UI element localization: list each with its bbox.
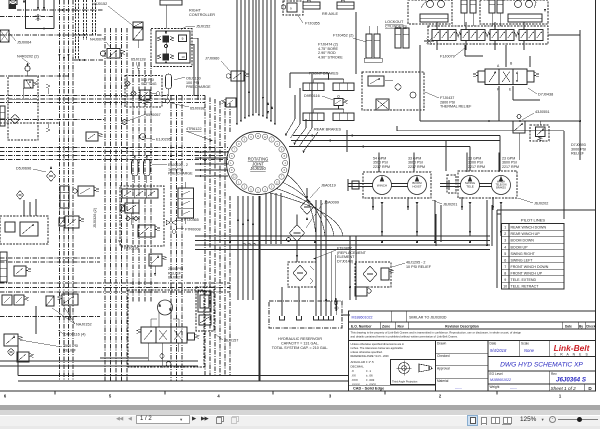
- pump group 2 enclosure (J6J0202): [458, 171, 517, 198]
- svg-text:M188601022: M188601022: [352, 316, 373, 320]
- pump shaft winch-boom: [392, 184, 408, 187]
- svg-text:± .1: ± .1: [366, 369, 371, 373]
- wire vertical pairs top band: [76, 0, 96, 60]
- wire verticals pump return (x 435-441): [435, 200, 441, 242]
- wire right section horizontal y210: [497, 209, 595, 211]
- controller valve lower: [157, 42, 187, 63]
- wire horizontal valve bank to D7J0438: [465, 45, 530, 67]
- drawing border right: [595, 0, 597, 391]
- main pressure line (thick, x 259.5): [259, 196, 261, 381]
- viewer: toolbar background: [0, 416, 600, 429]
- label E1J0295: [146, 138, 171, 142]
- label F7J0355: [297, 14, 320, 26]
- lockout cylinder pair B: [395, 28, 409, 48]
- confidentiality legal text: [349, 331, 596, 341]
- wire bus vertical group E (x 205-230): [205, 96, 230, 376]
- label O5J1130 100 PSI PRE-CHARGE: [174, 77, 211, 90]
- cylinder pair E top: [489, 0, 503, 26]
- pump arcs cluster top-right of bank: [508, 1, 546, 23]
- svg-text:inches. The tolerances below: inches. The tolerances below are applica…: [351, 346, 404, 350]
- svg-text:F7J0355: F7J0355: [305, 22, 320, 26]
- svg-text:Approval: Approval: [437, 367, 450, 371]
- viewer: zoom out button: [549, 416, 556, 423]
- svg-text:J6J0201: J6J0201: [443, 203, 457, 207]
- viewer: zoom dropdown caret: [542, 417, 548, 424]
- svg-text:Date: Date: [490, 341, 497, 345]
- label HYDRAULIC RESERVOIR CAPACITY: [272, 337, 329, 350]
- svg-text:D5J0696: D5J0696: [16, 167, 31, 171]
- label 500 PSI SETTING: [141, 78, 157, 86]
- wire group feeding rotating joint top (x 237-275): [236, 0, 276, 125]
- viewer: layout icon facing: [491, 417, 496, 424]
- valve bank inlet symbol: [424, 39, 434, 44]
- pilot lines feed wire: [436, 214, 502, 246]
- valve cluster J6J0157: [196, 287, 214, 331]
- zone numbers bottom: [4, 394, 562, 399]
- valve J7J0960: [226, 71, 249, 81]
- valve V1 top-left corner (bowtie + solenoid): [9, 0, 18, 9]
- swing control valve: [137, 327, 200, 343]
- front brake T-branch: [314, 73, 344, 80]
- top-right cluster enclosure B: [480, 0, 548, 24]
- svg-text:PRE-CHARGE: PRE-CHARGE: [186, 85, 211, 89]
- svg-text:.X: .X: [351, 369, 354, 373]
- svg-text:This drawing is the property o: This drawing is the property of Link-Bel…: [351, 331, 522, 335]
- svg-text:Rev: Rev: [551, 372, 557, 376]
- svg-text:4: 4: [504, 245, 506, 249]
- viewer: layout icon continuous: [481, 417, 487, 424]
- accumulator E5J0220 pair: [132, 155, 151, 183]
- wire bus horizontal right of joint y130-147: [289, 126, 564, 171]
- svg-text:FRONT BRAKES: FRONT BRAKES: [309, 72, 339, 76]
- label J7J0960: [205, 57, 230, 72]
- viewer: layout icon single-page (selected): [467, 415, 478, 426]
- label 3500 PSI RELIEF: [20, 340, 78, 352]
- drawing border bottom: [0, 390, 596, 392]
- svg-text:PRE-CHARGE: PRE-CHARGE: [168, 172, 193, 176]
- label 65J0938: [170, 103, 205, 111]
- viewer: page field dropdown caret: [180, 417, 186, 423]
- svg-text:J6A0119: J6A0119: [321, 184, 336, 188]
- solenoid valve mid-left B: [59, 216, 84, 228]
- viewer: zoom slider track: [558, 419, 598, 420]
- svg-text:J5J0326 (2): J5J0326 (2): [93, 207, 97, 228]
- viewer: snapshot icon 1: [217, 416, 224, 423]
- label NAJ0152: [52, 307, 92, 327]
- svg-text:Third Angle Projection: Third Angle Projection: [392, 380, 418, 384]
- svg-text:E1J0295: E1J0295: [156, 138, 171, 142]
- valve NAJ0152 b: [58, 294, 79, 305]
- svg-text:65J0128: 65J0128: [131, 58, 146, 62]
- hydraulic reservoir tank: [269, 287, 342, 328]
- svg-text:RELIEF: RELIEF: [63, 348, 77, 352]
- CAD - Solid Edge cell: [349, 385, 436, 391]
- label D9R0116: [304, 94, 333, 100]
- svg-text:Rev: Rev: [398, 324, 404, 328]
- valve below J7J0960: [222, 98, 237, 107]
- RR axle cylinder pair right: [337, 0, 354, 9]
- pump input shaft 2: [440, 180, 461, 190]
- label 46J1295 - 2 10 PSI RELIEF: [392, 261, 432, 269]
- left edge valve strip lower: [0, 252, 7, 282]
- wire bus horizontal y148-160 (main cross bus): [0, 148, 228, 160]
- label F7J0437 2800 PSI THERMAL RELIEF: [425, 92, 472, 109]
- svg-text:± .06: ± .06: [366, 374, 373, 378]
- svg-text:HYDRAULIC RESERVOIR: HYDRAULIC RESERVOIR: [278, 337, 322, 341]
- svg-text:F7R0008: F7R0008: [185, 228, 201, 232]
- svg-text:J5J0152: J5J0152: [196, 25, 210, 29]
- pump arcs cluster top-left of bank: [420, 1, 448, 23]
- svg-text:E.O. Number: E.O. Number: [351, 324, 372, 328]
- viewer: zoom slider thumb: [577, 417, 582, 422]
- svg-text:TOTAL SYSTEM CAP. = 210 GAL.: TOTAL SYSTEM CAP. = 210 GAL.: [272, 346, 329, 350]
- controller top box: [160, 0, 182, 48]
- wire filter chain down: [296, 242, 298, 263]
- revision header row: [349, 322, 596, 329]
- svg-text:2217 RPM: 2217 RPM: [373, 165, 390, 169]
- filter diamond left manifold: [11, 114, 20, 124]
- svg-text:Check: Check: [586, 324, 596, 328]
- label F1J0079: [440, 47, 466, 59]
- wire verticals pilot feed (x 487-497): [487, 200, 497, 288]
- weight / sheet row: [490, 384, 593, 391]
- wire bus jogs (crossing loops): [242, 244, 256, 246]
- svg-text:BRAKES: BRAKES: [496, 187, 506, 190]
- label 43J0551: [522, 110, 550, 120]
- svg-text:9/4/2018: 9/4/2018: [490, 348, 507, 353]
- test coupling left of title block: [334, 298, 338, 311]
- test point symbols x48: [46, 84, 50, 132]
- svg-text:TELE. RETRACT: TELE. RETRACT: [511, 285, 540, 289]
- label J6A0099: [306, 201, 339, 229]
- viewer: page nav next button: [192, 416, 198, 423]
- svg-text:M188601022: M188601022: [490, 378, 511, 382]
- svg-text:REAR WINCH UP: REAR WINCH UP: [511, 232, 541, 236]
- viewer: page nav first-page button: [116, 417, 126, 423]
- label J6A0119: [310, 184, 336, 199]
- swing motor enclosure: [128, 290, 204, 367]
- svg-text:TELE. EXTEND: TELE. EXTEND: [511, 278, 537, 282]
- svg-text:9: 9: [504, 278, 506, 282]
- viewer: bottom status strip: [0, 426, 600, 429]
- swing gauge circle: [166, 362, 171, 367]
- valve bank port verticals: [437, 22, 580, 50]
- label J6J0201: [432, 200, 457, 207]
- svg-text:SWING RIGHT: SWING RIGHT: [511, 252, 536, 256]
- valve bank enclosure F7J0136: [120, 186, 164, 246]
- svg-text:By: By: [579, 324, 583, 328]
- svg-text:BOOM DOWN: BOOM DOWN: [511, 239, 535, 243]
- label J6J0157: [215, 334, 238, 343]
- wire right section verticals to pumps: [381, 205, 502, 236]
- manifold box left (pressure reducing): [8, 76, 38, 140]
- valve N4J0070: [100, 49, 125, 59]
- label F7J0452 (2): [333, 34, 366, 43]
- svg-text:Sheet 1 of 2: Sheet 1 of 2: [551, 386, 577, 391]
- wire from reservoir to title block zone: [260, 315, 351, 391]
- svg-text:F7J0136: F7J0136: [124, 247, 139, 251]
- gauge port circle N4R0202: [25, 63, 30, 76]
- accumulator O5J1130: [166, 74, 172, 96]
- svg-text:Zone: Zone: [382, 324, 390, 328]
- valve bank strip far-left: [0, 106, 5, 126]
- svg-text:Material: Material: [437, 379, 449, 383]
- wire stubs above left manifold: [24, 199, 36, 216]
- wire right vertical x564 to pilot table: [563, 131, 565, 219]
- svg-text:N4R0202 (2): N4R0202 (2): [17, 55, 39, 59]
- label N4J0070 with leader: [90, 38, 112, 50]
- wire bus horizontal y76 left: [0, 75, 68, 77]
- wire right section frame: [420, 45, 580, 160]
- svg-text:10: 10: [181, 55, 185, 59]
- brake connection wires: [290, 73, 329, 88]
- valve D9R0116: [334, 95, 348, 105]
- svg-text:N4J0070: N4J0070: [90, 38, 105, 42]
- svg-text:8: 8: [504, 271, 506, 275]
- label ROTATING JOINT J6J6150: [248, 157, 269, 172]
- svg-text:FRONT WINCH DOWN: FRONT WINCH DOWN: [511, 265, 549, 269]
- relief valve 3500 PSI: [4, 334, 23, 346]
- svg-text:RIGHT: RIGHT: [189, 9, 201, 13]
- valve 43J0551: [513, 115, 525, 161]
- viewer: zoom percent text: [520, 416, 544, 424]
- relief valve D7J0393: [530, 121, 549, 141]
- right controller dashed enclosure: [151, 29, 192, 67]
- vertical valve stack right of F7J0136: [178, 182, 194, 224]
- svg-text:and details contained herein i: and details contained herein is prohibit…: [351, 335, 459, 339]
- svg-text:J6J0364 S: J6J0364 S: [556, 376, 587, 383]
- swing motor circle: [151, 300, 179, 327]
- front brake unit right: [333, 79, 354, 91]
- label RIGHT CONTROLLER: [189, 9, 215, 17]
- gauge circle E1J0295: [140, 134, 146, 140]
- directional valve bank (4 valves): [432, 30, 543, 41]
- wire pump suction drops: [373, 197, 493, 210]
- wire junction dots misc: [126, 120, 581, 301]
- pump input shaft left: [348, 179, 373, 191]
- arrow marks on bus A: [59, 54, 70, 59]
- pump group 2 small coupling box: [447, 175, 456, 193]
- gauge circles F7J0365 F7R0008: [166, 220, 176, 233]
- label DR00116 (4): [58, 330, 86, 337]
- svg-text:WINCH: WINCH: [377, 184, 387, 188]
- gauge circle 65J0938: [166, 94, 170, 103]
- svg-text:None: None: [524, 348, 535, 353]
- valve cluster mid-left A: [60, 186, 99, 208]
- wire group below joint right (x 266-280): [266, 193, 281, 244]
- svg-text:J6J0157: J6J0157: [224, 339, 238, 343]
- port labels A B P E: [497, 62, 513, 92]
- wire bus vertical group C (x 133-151): [133, 62, 151, 302]
- RR axle cylinder pair left: [303, 0, 320, 9]
- wire lines D7J0438 down: [499, 86, 540, 121]
- manifold dashed box mid-left: [0, 216, 48, 244]
- svg-text:3: 3: [504, 239, 506, 243]
- svg-text:EO Level: EO Level: [490, 372, 503, 376]
- svg-text:10 PSI RELIEF: 10 PSI RELIEF: [406, 265, 432, 269]
- wire bus horizontal y35 left: [0, 34, 103, 36]
- small valve above title block: [355, 287, 371, 296]
- svg-text:.XXX: .XXX: [351, 378, 358, 382]
- pump drain triangles: [372, 202, 502, 209]
- svg-text:Link-Belt: Link-Belt: [554, 343, 591, 353]
- wire bus horizontal left y283-292: [0, 283, 230, 292]
- thermal relief enclosure: [362, 72, 424, 110]
- label D5J0696: [16, 167, 46, 173]
- wire bus horizontal y236-250 (suction bus): [195, 236, 490, 250]
- svg-text:BOOM UP: BOOM UP: [511, 245, 529, 249]
- suction strainer right: [355, 262, 394, 287]
- svg-text:C R A N E S: C R A N E S: [554, 352, 590, 356]
- svg-text:F7J0452 (2): F7J0452 (2): [333, 34, 354, 38]
- pump BOOM HOIST: [408, 176, 427, 195]
- svg-text:NAJ0152: NAJ0152: [76, 323, 92, 327]
- valve with gauge left of RR axle: [281, 1, 303, 15]
- wire bus horizontal bottom y361-366: [0, 361, 198, 366]
- filter diamond left2: [17, 191, 24, 200]
- svg-text:SWING LEFT: SWING LEFT: [511, 258, 534, 262]
- svg-text:SIMILAR TO J6J0303D: SIMILAR TO J6J0303D: [409, 316, 447, 320]
- valve box left edge y30: [0, 30, 9, 42]
- label FTF0867 (REPLACEMENT ELEMENT D7J0148): [314, 247, 367, 264]
- svg-text:65J0938: 65J0938: [190, 107, 205, 111]
- wire bus horizontal y95-103 (pilot bus to joint): [0, 96, 205, 103]
- solenoid valve N4J0152: [133, 22, 143, 48]
- svg-text:Date: Date: [565, 324, 572, 328]
- svg-text:7: 7: [504, 265, 506, 269]
- svg-text:43J0551: 43J0551: [535, 110, 550, 114]
- filter diamond bottom-left: [8, 348, 15, 356]
- svg-text:2217 RPM: 2217 RPM: [502, 165, 519, 169]
- wire top-left verticals and star junction: [23, 0, 54, 29]
- label LOCKOUT CYLINDERS: [385, 20, 407, 28]
- wire bus horizontal y60 right-of-group-A: [74, 59, 103, 61]
- wire swing motor to bus: [148, 343, 178, 361]
- solenoid valve NAJ0152 a: [46, 296, 54, 306]
- svg-text:DWG HYD SCHEMATIC XP: DWG HYD SCHEMATIC XP: [500, 362, 583, 369]
- label J5J0326 (2) vertical: [93, 207, 97, 228]
- return filter FTF0867: [288, 262, 316, 287]
- viewer: layout icon book: [503, 417, 508, 424]
- svg-text:Weight: Weight: [490, 385, 500, 389]
- wire horizontal left of joint: [195, 151, 228, 177]
- svg-text:± .003: ± .003: [366, 378, 375, 382]
- svg-text:------: ------: [510, 386, 517, 390]
- revision row 1 (M188601022 / SIMILAR TO): [349, 311, 596, 322]
- wire verticals right of center (x 350-356): [350, 236, 356, 300]
- svg-text:FRONT WINCH UP: FRONT WINCH UP: [511, 271, 543, 275]
- svg-text:10: 10: [503, 285, 507, 289]
- wire pump outlet risers: [379, 153, 499, 173]
- svg-text:TELE: TELE: [466, 185, 474, 189]
- label F7R0008: [177, 228, 201, 232]
- svg-text:REAR BRAKES: REAR BRAKES: [314, 128, 341, 132]
- valve left lower w: [14, 266, 31, 276]
- svg-text:Drawn: Drawn: [437, 342, 446, 346]
- wire left-bottom risers: [36, 306, 148, 358]
- svg-text:2217 RPM: 2217 RPM: [468, 165, 485, 169]
- filter diamond D5J0696: [47, 167, 56, 182]
- svg-text:D7J0438: D7J0438: [538, 93, 553, 97]
- valve bottom-left small: [17, 352, 34, 362]
- viewer: page number field: [136, 415, 190, 425]
- wire vertical below RR axle: [355, 12, 357, 74]
- wire bus horizontal y119-123 left: [0, 120, 105, 124]
- filter J6A0119: [301, 188, 314, 220]
- svg-text:J5J0064: J5J0064: [17, 41, 31, 45]
- wires from brakes elbowing into joint upper-right: [285, 74, 318, 153]
- rotating joint J6J6150 (main circle): [227, 132, 290, 195]
- drawing title DWG HYD SCHEMATIC XP: [488, 362, 596, 371]
- svg-text:ANGULAR ± 1°.5: ANGULAR ± 1°.5: [351, 360, 375, 364]
- viewer: snapshot icon 2 (disabled): [232, 416, 239, 423]
- pump SWING TELE: [461, 176, 480, 195]
- label N4J0152 with leader: [92, 2, 136, 28]
- svg-text:5: 5: [504, 252, 506, 256]
- svg-text:65J0627: 65J0627: [168, 276, 182, 280]
- wire bus horizontal left y258-266: [0, 258, 100, 262]
- viewer: page nav last button: [201, 416, 212, 423]
- pump WINCH TELE/GIN BRAKES: [492, 176, 511, 195]
- label F7J0136: [118, 240, 139, 251]
- viewer: page nav prev button: [128, 417, 134, 423]
- viewer: grey gap below page: [0, 405, 600, 410]
- svg-text:DR00116 (4): DR00116 (4): [64, 333, 86, 337]
- pilot lines table: [502, 224, 565, 290]
- svg-text:CAD - Solid Edge: CAD - Solid Edge: [353, 387, 384, 391]
- rear brake T-branch: [314, 106, 344, 110]
- svg-text:Unless otherwise specified dim: Unless otherwise specified dimensions ar…: [351, 342, 405, 346]
- wire bus horizontal bottom y375-381: [18, 376, 348, 382]
- svg-text:Revision Description: Revision Description: [445, 324, 479, 328]
- svg-text:2: 2: [504, 232, 506, 236]
- label 4TR6122: [186, 127, 213, 141]
- front brake unit left: [303, 79, 324, 91]
- wire bus vertical group B (x 105-127): [105, 28, 127, 381]
- svg-text:F1J0079: F1J0079: [440, 55, 455, 59]
- pressure setting valve cluster 500psi: [125, 76, 162, 108]
- svg-text:9: 9: [182, 37, 184, 41]
- valves inside F7J0136: [120, 189, 160, 237]
- wire bus horizontal top-left corner: [0, 9, 103, 16]
- svg-text:J6J6150: J6J6150: [250, 166, 266, 171]
- valve small x86: [86, 132, 103, 141]
- wire group below rotating joint (x 238-253): [237, 196, 254, 300]
- svg-text:Checked: Checked: [437, 354, 450, 358]
- wire bottom connectors: [17, 346, 19, 376]
- svg-text:RR AXLE: RR AXLE: [322, 12, 339, 16]
- label D7J0438: [528, 88, 553, 97]
- third angle projection box: [391, 360, 436, 385]
- wire bus vertical group F (x 316-326): [316, 200, 326, 301]
- label 65J0128 with leader: [131, 58, 146, 73]
- svg-text:LOCKOUT: LOCKOUT: [385, 20, 404, 24]
- wires into reservoir top: [331, 252, 335, 301]
- cylinder pair D top: [461, 0, 476, 26]
- svg-text:1: 1: [504, 226, 506, 230]
- svg-text:SETTING: SETTING: [141, 82, 157, 86]
- label E5J0220 - 2 1400 PSI PRE-CHARGE: [152, 163, 193, 176]
- svg-text:N4J0152: N4J0152: [92, 2, 107, 6]
- drawn/checked/approval/material rows: [436, 342, 489, 391]
- label J5J0064: [9, 33, 31, 45]
- svg-text:Scale: Scale: [521, 341, 529, 345]
- filter J6A0099: [287, 215, 305, 242]
- svg-text:RELIEF: RELIEF: [571, 152, 585, 156]
- title block outer frame: [349, 311, 596, 391]
- svg-text:PILOT LINES: PILOT LINES: [521, 218, 545, 223]
- arrowheads on top-left verticals: [37, 7, 45, 9]
